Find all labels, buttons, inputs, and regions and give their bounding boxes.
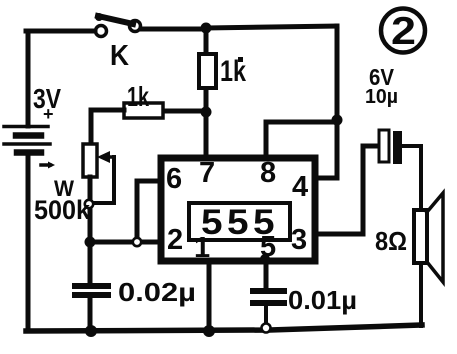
label R1 k dot artifact xyxy=(238,57,243,62)
wire R2 to potentiometer top xyxy=(89,110,94,145)
capacitor C1 top lead xyxy=(88,242,93,283)
node F junction xyxy=(203,325,215,337)
svg-text:6: 6 xyxy=(166,163,182,195)
potentiometer W wiper wire xyxy=(92,157,114,203)
resistor R2 left lead xyxy=(91,108,124,113)
node E circle xyxy=(133,238,141,246)
node G circle xyxy=(262,324,271,333)
svg-text:8Ω: 8Ω xyxy=(375,226,407,256)
node A junction xyxy=(201,23,212,34)
switch K right contact xyxy=(130,21,141,32)
capacitor C3 10u negative plate xyxy=(393,131,402,164)
wire left rail bottom xyxy=(26,153,31,331)
wire pin 1 xyxy=(207,262,212,331)
battery B1 plate2 short thick xyxy=(16,132,41,139)
switch K left contact xyxy=(96,26,107,37)
svg-text:1k: 1k xyxy=(127,81,149,112)
svg-text:K: K xyxy=(110,40,129,72)
capacitor C1 0.02u bottom plate xyxy=(75,292,108,298)
svg-text:10µ: 10µ xyxy=(365,86,398,108)
wire pin 6 branch xyxy=(137,181,160,242)
node B junction xyxy=(332,115,343,126)
capacitor C2 bottom lead xyxy=(264,306,268,327)
speaker LS1 driver box xyxy=(414,210,427,263)
wire speaker bottom xyxy=(419,263,423,326)
wire pin 3 xyxy=(316,232,363,237)
wire bottom rail xyxy=(26,325,422,331)
figure marker circle 2 xyxy=(381,9,425,53)
wire top right segment xyxy=(206,26,337,28)
switch K lever pivot blob xyxy=(95,13,103,21)
wire pin 8 to node B xyxy=(266,122,337,156)
label battery minus xyxy=(41,163,50,167)
wire right drop to node B xyxy=(335,26,340,120)
svg-text:+: + xyxy=(43,104,54,124)
node C junction xyxy=(201,107,212,118)
svg-text:8: 8 xyxy=(260,157,276,189)
node H junction xyxy=(85,325,97,337)
wire left rail top xyxy=(26,31,31,126)
svg-text:1: 1 xyxy=(194,232,210,264)
capacitor C2 0.01u top plate xyxy=(253,288,284,294)
wire pin 7 xyxy=(204,112,209,157)
resistor R2 1k body xyxy=(124,103,163,118)
svg-text:4: 4 xyxy=(292,171,308,203)
wire pin3 riser to C3 xyxy=(363,146,379,234)
resistor R1 top lead xyxy=(204,28,209,55)
speaker LS1 cone xyxy=(427,193,443,282)
node pin5 blob xyxy=(260,254,270,264)
capacitor C3 10u positive plate xyxy=(379,130,389,162)
wire C3 to speaker xyxy=(402,146,421,211)
resistor R1 1k body xyxy=(199,54,216,88)
svg-text:3: 3 xyxy=(291,224,307,256)
svg-text:7: 7 xyxy=(199,157,215,189)
wire top-left segment xyxy=(26,29,95,34)
svg-text:2: 2 xyxy=(167,224,183,256)
capacitor C2 0.01u bottom plate xyxy=(253,300,284,306)
battery B1 plate1 long xyxy=(4,125,48,129)
wire pin 5 xyxy=(264,262,269,288)
switch K lever xyxy=(98,16,133,24)
svg-text:500k: 500k xyxy=(34,195,91,225)
svg-text:0.02µ: 0.02µ xyxy=(118,277,196,307)
resistor R2 right lead xyxy=(163,109,206,114)
battery B1 plate4 short thick xyxy=(17,149,41,156)
IC U1 555 outer box xyxy=(161,158,315,261)
wire switch to node A xyxy=(141,27,206,32)
wire node B to pin 4 xyxy=(315,120,337,178)
wire pot bottom xyxy=(88,177,93,242)
node wiper circle xyxy=(85,200,93,208)
capacitor C1 bottom lead xyxy=(88,298,93,331)
resistor R1 bottom lead xyxy=(204,89,209,113)
node D junction xyxy=(85,237,96,248)
capacitor C1 0.02u top plate xyxy=(75,283,108,289)
svg-text:2: 2 xyxy=(391,10,416,53)
battery B1 plate3 long xyxy=(4,142,50,146)
potentiometer W body xyxy=(83,144,97,177)
wire pin 2 xyxy=(90,240,160,245)
potentiometer W wiper arrow xyxy=(103,155,114,159)
svg-text:0.01µ: 0.01µ xyxy=(288,285,357,315)
IC U1 inner 555 box xyxy=(189,203,290,240)
